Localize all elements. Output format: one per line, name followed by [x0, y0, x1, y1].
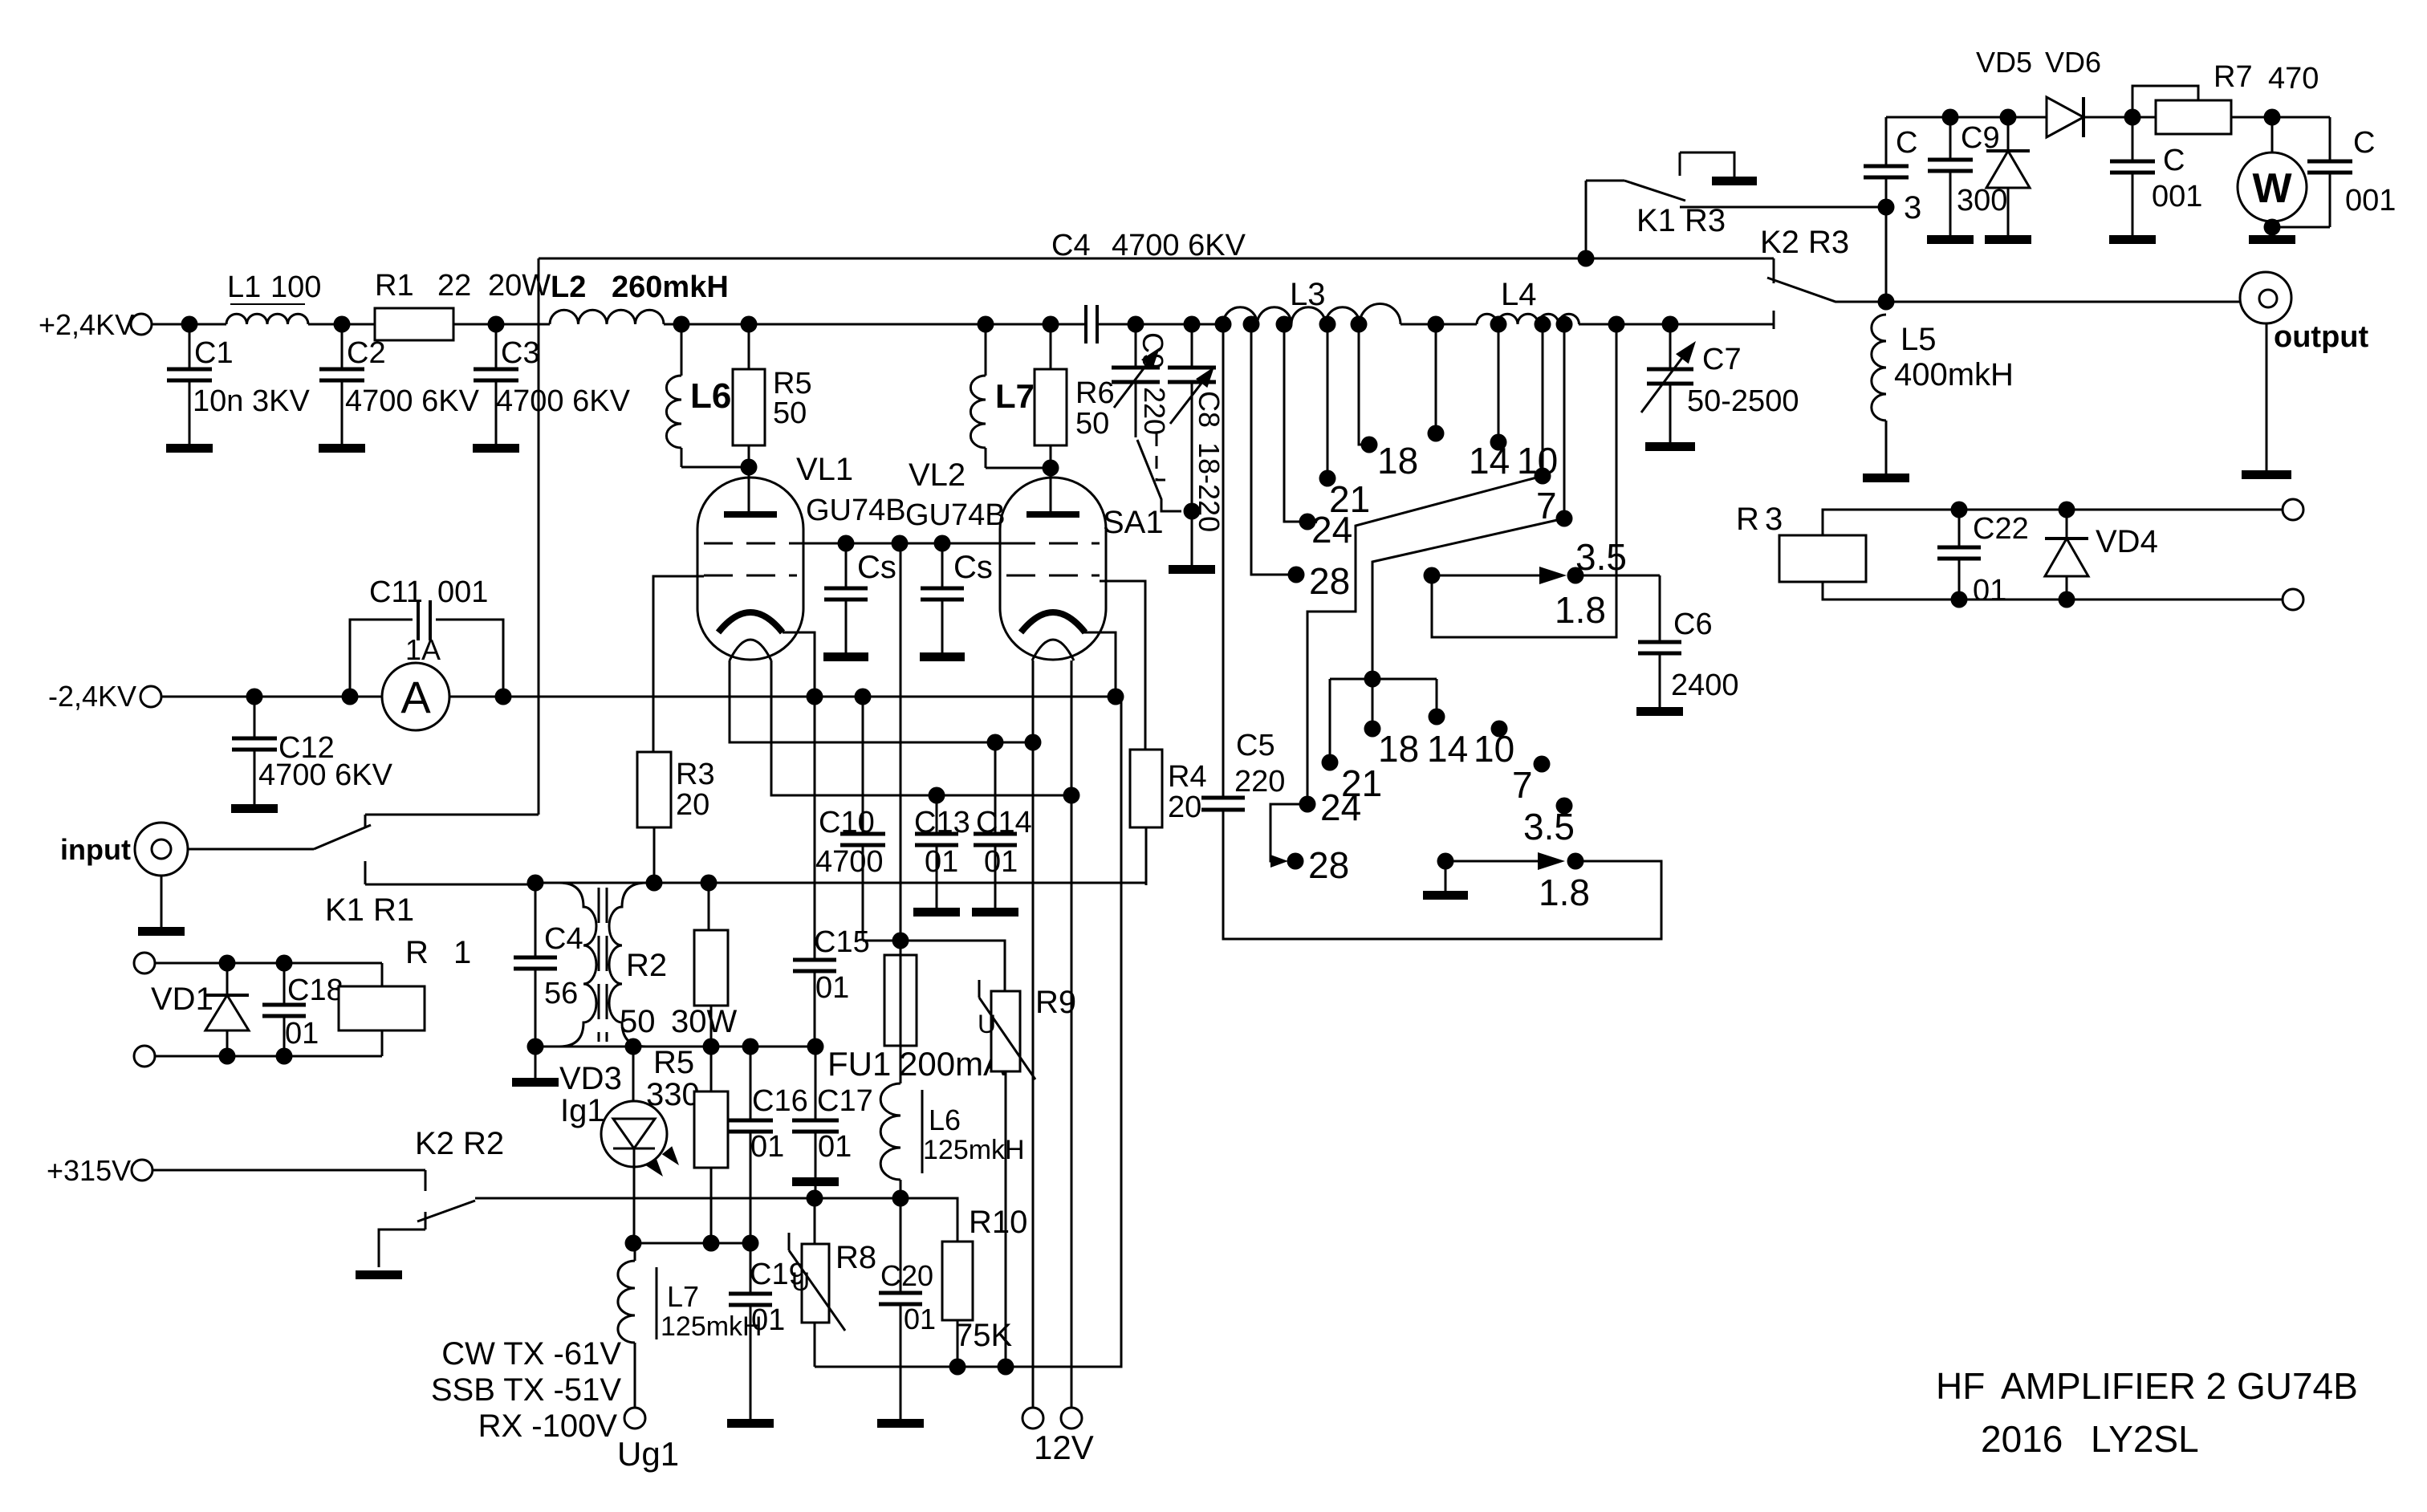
wire VL2 grid to R4: [1100, 581, 1145, 750]
inductor L3: [1223, 307, 1360, 324]
svg-text:3: 3: [1904, 190, 1921, 226]
svg-text:GU74B: GU74B: [905, 498, 1006, 532]
wire VL2 heater right: [1071, 660, 1073, 1408]
wire top bypass bus: [539, 258, 1774, 260]
anode plate bar: [724, 511, 777, 518]
svg-text:56: 56: [544, 977, 578, 1010]
capacitor C9 300: [1949, 117, 1952, 160]
terminal relay a: [2283, 499, 2303, 520]
capacitor C coupling detector: [1885, 177, 1888, 207]
svg-text:AMPLIFIER 2 GU74B: AMPLIFIER 2 GU74B: [2001, 1365, 2358, 1407]
svg-text:C13: C13: [914, 806, 970, 839]
svg-text:1.8: 1.8: [1555, 589, 1606, 631]
capacitor C1: [189, 324, 191, 369]
svg-text:C10: C10: [819, 806, 875, 839]
svg-text:Cs: Cs: [953, 550, 993, 585]
svg-text:SA1: SA1: [1103, 505, 1164, 540]
svg-text:1: 1: [453, 935, 471, 970]
svg-text:Ug1: Ug1: [617, 1435, 679, 1473]
svg-text:L2: L2: [551, 270, 586, 304]
svg-text:C22: C22: [1973, 512, 2029, 546]
node 3 vertical: [1885, 207, 1888, 302]
transformer T1 winding right: [609, 883, 646, 1047]
svg-text:RX -100V: RX -100V: [478, 1408, 618, 1444]
svg-text:30W: 30W: [671, 1004, 737, 1039]
wire: [453, 323, 550, 326]
svg-text:4700 6KV: 4700 6KV: [345, 384, 480, 418]
capacitor C4 4700 6KV coupling: [1086, 305, 1097, 343]
svg-text:C14: C14: [976, 806, 1032, 839]
resistor R10 75K: [942, 1242, 973, 1320]
wire transformer bottom: [535, 1046, 815, 1048]
svg-text:1A: 1A: [405, 633, 441, 666]
capacitor C10 4700: [862, 697, 864, 834]
tap 24: [1284, 324, 1301, 522]
svg-text:input: input: [60, 833, 131, 866]
tap 10: [1498, 324, 1500, 436]
wire VL2 heater left: [1032, 660, 1035, 1408]
svg-text:75K: 75K: [955, 1318, 1012, 1353]
wire to C6: [1575, 575, 1660, 577]
svg-text:K1 R1: K1 R1: [325, 892, 414, 928]
wire VL2 cathode to bus: [1083, 632, 1116, 697]
svg-text:GU74B: GU74B: [806, 494, 906, 527]
svg-text:U: U: [791, 1267, 810, 1296]
grid row 2: [1006, 575, 1100, 577]
svg-text:001: 001: [2345, 184, 2396, 217]
capacitor C19 01: [750, 1243, 752, 1294]
cathode: [1021, 612, 1085, 632]
svg-text:50: 50: [773, 396, 807, 430]
tap 28: [1251, 324, 1290, 575]
wire detector top: [1886, 116, 2132, 119]
svg-text:SSB TX -51V: SSB TX -51V: [431, 1372, 621, 1408]
capacitor Cs (VL1 screen): [845, 543, 848, 588]
zener diode VD5: [1986, 149, 2030, 152]
svg-text:20: 20: [676, 788, 709, 822]
tap 21: [1327, 324, 1329, 472]
svg-text:R10: R10: [969, 1205, 1027, 1240]
connector output: [2240, 272, 2291, 323]
switch link diagonal B: [1372, 518, 1564, 673]
wire C5 loop: [1223, 810, 1661, 939]
tap 18: [1359, 324, 1364, 445]
ammeter A 1A: [382, 663, 449, 730]
tap 14: [1435, 324, 1437, 427]
resistor R5 50: [748, 324, 750, 369]
svg-text:12V: 12V: [1034, 1429, 1094, 1466]
wire VL1 grid to R3: [653, 576, 704, 752]
variable capacitor C9 220: [1135, 324, 1137, 368]
svg-text:C7: C7: [1702, 343, 1742, 376]
diode VD6: [2047, 97, 2083, 137]
wattmeter W: [2271, 117, 2274, 152]
svg-text:L6: L6: [929, 1104, 961, 1136]
terminal 12V b: [1061, 1408, 1082, 1429]
tap 3.5: [1563, 324, 1566, 512]
resistor R1 22 20W: [375, 308, 453, 340]
svg-text:R7: R7: [2214, 60, 2253, 94]
terminal 12V a: [1022, 1408, 1043, 1429]
svg-text:L1: L1: [227, 270, 261, 304]
svg-text:28: 28: [1308, 844, 1349, 886]
svg-text:W: W: [2252, 165, 2292, 212]
svg-text:C: C: [1896, 126, 1917, 160]
inductor L4: [1477, 314, 1579, 324]
svg-text:200mA: 200mA: [899, 1045, 1006, 1083]
svg-text:C6: C6: [1673, 608, 1713, 641]
svg-text:R4: R4: [1168, 760, 1207, 794]
svg-text:4700: 4700: [815, 845, 884, 879]
wire grid bias bus: [475, 1198, 957, 1242]
wire: [1401, 323, 1477, 326]
resistor R4 20: [1130, 750, 1162, 827]
svg-text:C15: C15: [814, 925, 870, 959]
svg-text:20: 20: [1168, 791, 1201, 824]
tap 7: [1542, 324, 1544, 469]
fuse FU1 200mA: [884, 955, 917, 1046]
inductor L2 260mkH: [550, 310, 664, 324]
svg-text:R3: R3: [676, 758, 715, 791]
svg-text:U: U: [978, 1010, 996, 1038]
svg-text:C: C: [2353, 126, 2375, 160]
svg-text:4700 6KV: 4700 6KV: [496, 384, 631, 418]
svg-text:R5: R5: [773, 367, 812, 400]
svg-text:L3: L3: [1290, 277, 1326, 312]
capacitor C3: [495, 324, 498, 369]
svg-text:001: 001: [2152, 180, 2202, 213]
svg-text:R: R: [1736, 502, 1759, 537]
svg-text:470: 470: [2268, 62, 2319, 96]
wire: [2083, 116, 2156, 119]
svg-text:VD1: VD1: [151, 982, 213, 1017]
capacitor C13 01: [929, 787, 945, 804]
wire: [2231, 116, 2330, 119]
grid row 1: [704, 543, 797, 545]
svg-text:HF: HF: [1936, 1365, 1985, 1407]
capacitor C12 4700 6KV: [254, 697, 256, 738]
wire grid feed: [900, 543, 902, 941]
svg-text:18: 18: [1377, 440, 1418, 482]
svg-text:18: 18: [1378, 728, 1419, 770]
svg-text:18-220: 18-220: [1193, 442, 1226, 532]
svg-text:L7: L7: [995, 377, 1035, 415]
node top bus to K1R3: [1578, 250, 1595, 267]
svg-text:L7: L7: [667, 1280, 699, 1313]
wire bias return: [815, 697, 1121, 1367]
tap 24 lower: [1299, 796, 1316, 813]
tap 7 lower: [1534, 756, 1551, 773]
switch ring upper: [1432, 324, 1616, 637]
LED Ig1 indicator: [632, 1047, 635, 1102]
svg-text:C16: C16: [752, 1084, 808, 1118]
wire anode VL2: [1050, 468, 1052, 514]
grid row 1: [1006, 543, 1100, 545]
svg-text:K1 R3: K1 R3: [1636, 203, 1726, 238]
svg-text:R1: R1: [375, 269, 414, 303]
wire anode VL1: [748, 467, 750, 514]
wire cathode bus: [161, 696, 382, 698]
relay coil R 3: [1779, 535, 1866, 582]
svg-text:VL2: VL2: [909, 457, 966, 493]
wire plate bus: [664, 323, 1086, 326]
svg-text:output: output: [2274, 320, 2369, 354]
svg-text:01: 01: [984, 845, 1018, 879]
svg-text:21: 21: [1329, 478, 1370, 520]
resistor R5 330: [710, 1047, 713, 1091]
svg-text:100: 100: [270, 270, 321, 304]
svg-text:220: 220: [1234, 765, 1285, 799]
svg-text:3.5: 3.5: [1575, 536, 1627, 578]
relay contact K2 R3: [1773, 258, 1775, 283]
wire K1R3 to node 3: [1680, 206, 1886, 209]
wire VL1 heater right: [771, 660, 1071, 795]
relay contact K2 R2: [417, 1201, 475, 1221]
capacitor C18 01: [283, 963, 286, 1005]
svg-text:21: 21: [1341, 762, 1382, 804]
svg-text:R6: R6: [1075, 376, 1115, 410]
tap 10 lower: [1491, 721, 1508, 738]
capacitor C 001 right: [2329, 117, 2331, 161]
switch wiper 1.8 lower: [1437, 853, 1454, 870]
svg-text:260mkH: 260mkH: [612, 270, 729, 304]
tube envelope: [1000, 478, 1106, 660]
terminal Ug1: [624, 1408, 645, 1429]
svg-text:C1: C1: [194, 336, 234, 370]
capacitor C 001 mid: [2132, 117, 2134, 161]
relay contact K1 R3: [1585, 181, 1588, 258]
svg-text:330: 330: [646, 1077, 700, 1112]
svg-text:C: C: [2163, 144, 2185, 177]
variable capacitor C7 50-2500: [1669, 324, 1672, 369]
cathode: [718, 612, 783, 632]
switch link diagonal A: [1307, 476, 1543, 798]
svg-text:C4: C4: [544, 922, 583, 956]
diode VD1: [226, 963, 229, 995]
capacitor C22 01: [1958, 510, 1961, 547]
svg-text:L6: L6: [690, 376, 731, 416]
inductor L5 400mkH: [1872, 315, 1886, 421]
terminal relay b: [2283, 589, 2303, 610]
inductor L7 anode choke: [985, 324, 987, 376]
svg-text:01: 01: [285, 1017, 319, 1051]
svg-text:VL1: VL1: [796, 452, 853, 487]
svg-text:14: 14: [1427, 728, 1468, 770]
svg-text:4700 6KV: 4700 6KV: [258, 758, 393, 792]
svg-text:FU1: FU1: [827, 1045, 891, 1083]
svg-text:R5: R5: [653, 1045, 694, 1080]
variable capacitor C8 18-220: [1191, 324, 1193, 368]
svg-text:01: 01: [925, 845, 958, 879]
svg-text:K2 R3: K2 R3: [1760, 225, 1849, 260]
svg-text:Ig1: Ig1: [560, 1093, 605, 1128]
svg-text:R2: R2: [626, 948, 667, 983]
svg-text:LY2SL: LY2SL: [2091, 1418, 2199, 1460]
svg-text:C4: C4: [1051, 229, 1091, 262]
capacitor C4 56 input: [535, 883, 537, 957]
switch SA1: [1137, 440, 1181, 511]
terminal relay R1 a: [134, 953, 155, 973]
svg-text:1.8: 1.8: [1539, 872, 1590, 913]
wire cathode bus continues: [539, 696, 1116, 698]
svg-text:3.5: 3.5: [1523, 806, 1575, 847]
inductor L6 anode choke: [681, 324, 683, 376]
svg-text:VD3: VD3: [559, 1061, 622, 1096]
inductor L7 bias choke 125mkH: [634, 1243, 636, 1261]
svg-text:+2,4KV: +2,4KV: [39, 308, 134, 341]
svg-text:+315V: +315V: [47, 1154, 131, 1187]
transformer core: [599, 888, 607, 1042]
svg-text:C20: C20: [880, 1259, 933, 1292]
capacitor C11 001 meter bypass: [350, 620, 413, 697]
svg-text:400mkH: 400mkH: [1894, 357, 2014, 392]
capacitor C6 2400: [1659, 575, 1661, 642]
svg-text:10: 10: [1474, 728, 1514, 770]
svg-text:2400: 2400: [1671, 669, 1739, 702]
svg-text:125mkH: 125mkH: [661, 1311, 762, 1342]
transformer T1 winding left: [559, 883, 596, 1047]
potentiometer R7 470: [2132, 86, 2198, 117]
relay coil R 1: [381, 963, 384, 986]
svg-text:2016: 2016: [1981, 1418, 2063, 1460]
capacitor C2: [341, 324, 344, 369]
varistor R9: [991, 991, 1020, 1071]
svg-text:01: 01: [815, 971, 849, 1005]
svg-text:C18: C18: [287, 973, 344, 1007]
tap 28 lower: [1287, 853, 1304, 870]
svg-text:C11: C11: [369, 575, 423, 609]
svg-text:VD5: VD5: [1976, 46, 2032, 79]
svg-text:01: 01: [904, 1303, 936, 1335]
capacitor C15 01: [814, 697, 816, 960]
svg-text:4700 6KV: 4700 6KV: [1112, 229, 1246, 262]
tube base arch: [1032, 640, 1074, 660]
resistor R6 50: [1050, 324, 1052, 369]
svg-text:C5: C5: [1236, 729, 1275, 762]
svg-text:C17: C17: [817, 1084, 873, 1118]
svg-text:220: 220: [1138, 387, 1171, 435]
svg-text:Cs: Cs: [857, 550, 896, 585]
svg-text:50-2500: 50-2500: [1687, 384, 1799, 418]
relay contact K1 R1: [314, 825, 371, 849]
capacitor C20 01: [900, 1198, 902, 1293]
terminal relay R1 b: [134, 1046, 155, 1067]
svg-text:7: 7: [1512, 764, 1533, 806]
wire: [308, 323, 375, 326]
wire VL1 heater left: [730, 660, 1033, 742]
capacitor C17 01: [815, 1047, 817, 1120]
capacitor Cs (VL2 screen): [941, 543, 944, 588]
svg-text:01: 01: [750, 1130, 784, 1164]
svg-text:125mkH: 125mkH: [923, 1135, 1025, 1165]
svg-text:L5: L5: [1901, 322, 1937, 357]
svg-text:50: 50: [1075, 407, 1109, 441]
wire: [152, 1169, 425, 1172]
svg-text:20W: 20W: [488, 269, 551, 303]
svg-text:R8: R8: [835, 1240, 876, 1275]
tube envelope: [697, 478, 803, 660]
inductor L1: [226, 314, 308, 324]
svg-text:C3: C3: [501, 336, 540, 370]
svg-text:A: A: [400, 672, 431, 722]
svg-text:VD4: VD4: [2096, 524, 2158, 559]
capacitor C16 01: [750, 1047, 752, 1120]
svg-text:C9: C9: [1136, 332, 1169, 369]
svg-text:01: 01: [1973, 574, 2006, 608]
svg-text:-2,4KV: -2,4KV: [48, 680, 136, 713]
anode plate bar: [1026, 511, 1079, 518]
varistor R8: [814, 1198, 816, 1244]
switch wiper 1.8 upper: [1424, 567, 1441, 584]
svg-text:R9: R9: [1035, 985, 1076, 1020]
svg-text:01: 01: [751, 1303, 785, 1337]
svg-text:K2 R2: K2 R2: [415, 1126, 504, 1161]
wire: [1097, 323, 1223, 326]
tube base arch: [730, 640, 771, 660]
wire: [633, 1242, 750, 1245]
wire C10 jog to R9: [900, 941, 1005, 991]
wire vertical bypass: [538, 258, 540, 815]
grid bus: [797, 543, 1006, 545]
grid row 2: [704, 575, 797, 577]
svg-text:10n 3KV: 10n 3KV: [193, 384, 310, 418]
svg-text:R: R: [405, 935, 429, 970]
svg-text:L4: L4: [1501, 277, 1537, 312]
ground VD3: [535, 1047, 537, 1078]
lower switch branch: [1364, 671, 1381, 688]
svg-text:001: 001: [437, 575, 488, 609]
svg-text:22: 22: [437, 269, 471, 303]
wire plate bus right: [1579, 323, 1774, 326]
svg-text:C8: C8: [1193, 391, 1226, 428]
tap 3.5 lower: [1556, 798, 1573, 815]
svg-text:28: 28: [1309, 560, 1350, 602]
wire input: [188, 848, 314, 851]
svg-text:CW TX -61V: CW TX -61V: [441, 1336, 621, 1372]
wire to output: [1886, 301, 2240, 303]
svg-text:50: 50: [620, 1004, 656, 1039]
capacitor C5 220: [1201, 798, 1245, 810]
svg-text:VD6: VD6: [2045, 46, 2101, 79]
svg-text:3: 3: [1765, 502, 1783, 537]
resistor R3 20: [637, 752, 671, 827]
svg-text:01: 01: [818, 1130, 852, 1164]
resistor R2 50 30W: [708, 883, 710, 930]
wire VL1 cathode to bus: [783, 632, 815, 697]
wire K1R1 to transformer: [535, 881, 537, 884]
inductor L6 bias choke 125mkH: [880, 1083, 900, 1180]
capacitor C14 01: [987, 734, 1004, 751]
wire: [155, 962, 382, 965]
wire: [152, 323, 226, 326]
diode VD4: [2045, 537, 2088, 540]
